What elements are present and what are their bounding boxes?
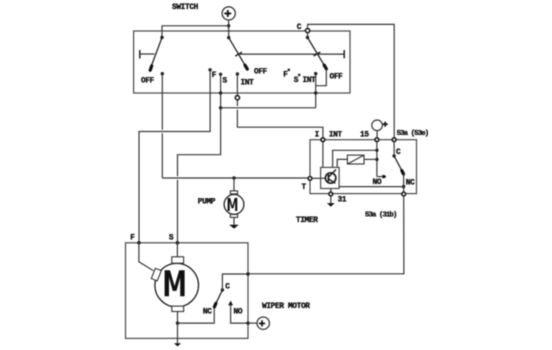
wire S net <box>178 74 221 176</box>
battery B2 (+) timer <box>372 120 388 131</box>
wire 15 to transistor <box>333 150 377 167</box>
svg-text:C: C <box>396 149 401 157</box>
wire SW1 contact down to T line <box>161 74 163 130</box>
wire C to timer 53a <box>308 24 395 137</box>
svg-text:WIPER MOTOR: WIPER MOTOR <box>262 303 310 311</box>
svg-text:NO: NO <box>373 179 382 187</box>
transistor Q1 <box>325 170 336 184</box>
svg-text:OFF: OFF <box>330 73 344 81</box>
svg-text:I: I <box>315 132 320 140</box>
svg-text:INT: INT <box>329 132 343 140</box>
motor terminal diagonal <box>151 268 161 281</box>
terminal 53a 53e <box>392 138 396 142</box>
svg-text:INT: INT <box>303 77 317 85</box>
svg-text:NO: NO <box>234 308 243 316</box>
node F2 <box>288 69 291 72</box>
svg-text:OFF: OFF <box>141 78 155 86</box>
switch box <box>134 31 350 93</box>
switch SW1 arm <box>150 38 162 71</box>
ground timer <box>327 196 335 207</box>
wire NC down <box>403 174 405 192</box>
relay contact NO stub <box>377 176 383 178</box>
svg-text:F: F <box>212 72 217 80</box>
switch SW1 fixed contact <box>140 50 155 59</box>
wire I internal <box>322 142 324 168</box>
wire 15 internal <box>376 142 378 177</box>
svg-text:53a (53e): 53a (53e) <box>397 130 429 138</box>
motor M letter <box>165 270 185 296</box>
wire coil left <box>337 159 347 167</box>
svg-text:C: C <box>297 24 302 32</box>
wire F net <box>139 70 210 243</box>
terminal I <box>321 138 325 142</box>
relay coil K1 <box>347 155 364 164</box>
wiper switch arm <box>214 290 222 307</box>
wire motor bottom <box>177 312 179 344</box>
wire transistor to NC <box>339 186 404 188</box>
wire wiper C to box edge <box>222 274 248 290</box>
wire NC wiper <box>178 307 215 323</box>
svg-text:INT: INT <box>241 79 255 87</box>
svg-text:F: F <box>130 234 135 242</box>
junction timer pivot <box>392 154 395 157</box>
relay switch arm <box>394 156 403 174</box>
svg-text:S: S <box>223 78 228 86</box>
wire battery B2 stem <box>376 131 378 138</box>
wire battery to SW2 pivot <box>228 26 230 38</box>
motor terminal bottom <box>172 306 184 311</box>
terminal 15 <box>375 138 379 142</box>
pump terminal bottom <box>230 214 237 217</box>
wire transistor to 31 <box>330 189 332 193</box>
svg-text:SWITCH: SWITCH <box>172 4 199 12</box>
wire pump ground stem <box>233 217 235 225</box>
node INT1 <box>236 72 239 75</box>
junction S box edge <box>219 91 222 94</box>
wire C circle to SW3 pivot <box>307 33 309 38</box>
wire S to motor top <box>176 243 178 257</box>
svg-text:NC: NC <box>406 179 415 187</box>
svg-text:31: 31 <box>338 197 347 205</box>
terminal F wiper <box>137 241 141 245</box>
switch SW3 pivot <box>306 36 309 39</box>
terminal INT circle <box>235 96 239 100</box>
terminal C circle <box>306 29 310 33</box>
junction pump feed <box>232 176 235 179</box>
terminal S wiper <box>176 241 180 245</box>
svg-text:F: F <box>283 71 288 79</box>
wire timer C stem <box>393 142 395 156</box>
wire F to motor brush <box>139 243 153 271</box>
pump M letter <box>228 198 238 211</box>
wire S branch to INT2 column <box>221 107 316 109</box>
contact bus line <box>239 50 345 58</box>
svg-text:PUMP: PUMP <box>198 199 216 207</box>
motor M1 circle <box>155 263 199 307</box>
switch SW3 crossing tick <box>314 52 321 56</box>
node INT2 <box>314 72 317 75</box>
ground wiper <box>174 343 181 346</box>
svg-text:OFF: OFF <box>254 69 268 77</box>
junction 15b <box>375 158 378 161</box>
wire INT net to timer I <box>236 100 238 106</box>
wire T line to timer <box>162 177 308 179</box>
svg-text:S: S <box>294 77 299 85</box>
switch SW3 arm <box>308 38 327 69</box>
switch SW1 pivot <box>160 36 163 39</box>
terminal 53a 31b <box>402 192 406 196</box>
battery B1 (+) top <box>222 7 235 20</box>
terminal 31 <box>329 192 333 196</box>
node F1 <box>208 68 211 71</box>
node S2 <box>298 74 301 77</box>
wire INT1 down <box>236 74 238 95</box>
junction wiper pivot <box>221 288 224 291</box>
switch SW2 pivot <box>227 36 230 39</box>
battery B3 (+) wiper <box>257 317 269 329</box>
wire battery B1 stem <box>228 20 230 26</box>
svg-text:S: S <box>169 234 174 242</box>
junction S branch <box>219 106 222 109</box>
junction motor bottom <box>176 321 179 324</box>
svg-text:T: T <box>302 184 307 192</box>
wiper motor box <box>126 243 249 339</box>
svg-text:C: C <box>225 284 230 292</box>
wire 53a31b to wiper box <box>248 196 404 274</box>
junction battery node <box>227 24 230 27</box>
svg-text:NC: NC <box>203 308 212 316</box>
wire battery to switch 1 <box>162 26 229 38</box>
wire to battery B3 <box>248 322 257 324</box>
ground pump <box>229 225 239 229</box>
wire NO wiper <box>231 305 248 323</box>
switch SW2 crossing tick <box>235 52 242 56</box>
junction 15a <box>375 149 378 152</box>
wire coil right <box>364 158 377 160</box>
svg-text:53a (31b): 53a (31b) <box>365 212 397 220</box>
node S1 <box>219 73 222 76</box>
motor terminal top <box>172 257 184 263</box>
svg-text:15: 15 <box>360 131 369 139</box>
transistor box <box>321 167 340 188</box>
relay contact NO wiper arrow <box>228 301 233 306</box>
svg-text:TIMER: TIMER <box>296 217 318 225</box>
wire INT2 column <box>315 74 317 108</box>
relay contact NO arrow <box>382 175 386 179</box>
pump terminal top <box>230 191 237 194</box>
node below SW1 pivot <box>161 72 164 75</box>
junction NO box edge <box>246 321 249 324</box>
wire pump stem <box>233 178 235 191</box>
wire T to transistor <box>312 177 325 179</box>
terminal T <box>308 177 312 181</box>
timer box <box>310 140 417 194</box>
junction C box edge <box>246 272 249 275</box>
pump motor M2 <box>224 195 244 215</box>
switch SW2 arm <box>229 38 248 70</box>
junction INT2 box edge <box>314 91 317 94</box>
junction NC <box>402 185 405 188</box>
wire SW3 off to INT2 <box>316 68 327 85</box>
